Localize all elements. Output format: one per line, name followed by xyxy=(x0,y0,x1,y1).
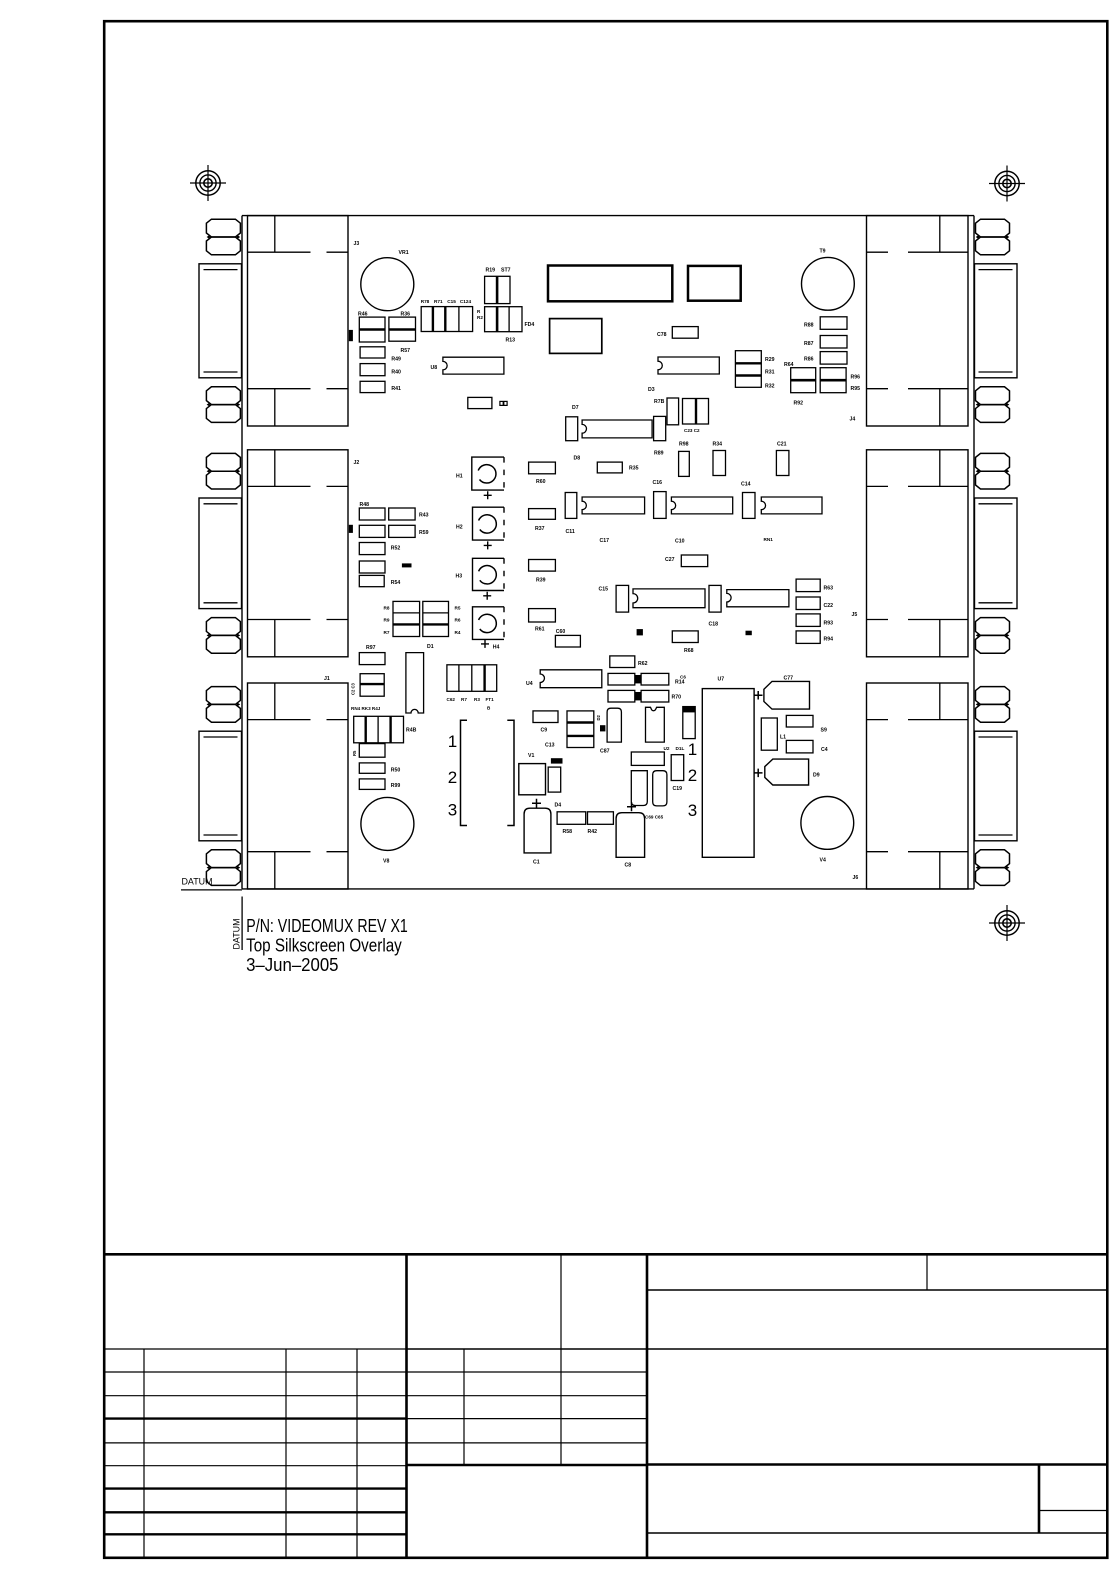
connector J3 (DB9 top-left) xyxy=(199,216,348,426)
svg-text:R94: R94 xyxy=(824,637,834,643)
capacitor C38 xyxy=(616,585,629,612)
svg-text:R41: R41 xyxy=(391,386,401,392)
resistor R54 xyxy=(359,575,384,586)
svg-text:D9: D9 xyxy=(813,773,820,779)
svg-text:V1: V1 xyxy=(528,753,534,759)
resistor R87 xyxy=(820,336,847,349)
svg-text:C2 C3: C2 C3 xyxy=(351,682,356,695)
svg-text:C77: C77 xyxy=(784,676,794,682)
capacitor C9 xyxy=(533,711,558,723)
IC U5 (DIP) xyxy=(582,497,645,514)
inductor L1 xyxy=(761,718,777,750)
resistor R99 xyxy=(359,779,385,790)
svg-text:C16: C16 xyxy=(653,480,663,486)
svg-text:R7B: R7B xyxy=(654,399,665,405)
svg-text:R36: R36 xyxy=(401,312,411,318)
svg-text:R8: R8 xyxy=(384,606,390,611)
capacitor C40 (notched) xyxy=(646,707,665,742)
svg-text:2: 2 xyxy=(448,768,457,787)
svg-text:R39: R39 xyxy=(536,578,546,584)
svg-text:R48: R48 xyxy=(360,502,370,508)
svg-text:D1L: D1L xyxy=(676,746,685,751)
svg-text:R98: R98 xyxy=(679,442,689,448)
resistor array C62/R7/R3/FT1 xyxy=(447,665,497,692)
connector J6 (DB9 bottom-right) xyxy=(867,683,1018,889)
resistor R72 xyxy=(631,752,664,765)
svg-text:R35: R35 xyxy=(629,466,639,472)
trimpot H4 adjust cross xyxy=(481,640,489,648)
svg-text:C15: C15 xyxy=(447,299,456,304)
svg-text:R7: R7 xyxy=(384,630,390,635)
connector J5 (DB9 middle-right) xyxy=(867,450,1018,657)
svg-text:J6: J6 xyxy=(853,875,859,881)
IC U10 (DIP) xyxy=(761,497,822,514)
svg-text:R49: R49 xyxy=(391,357,401,363)
svg-text:R2: R2 xyxy=(477,315,483,320)
resistor pair R36 xyxy=(389,317,416,341)
display module DS1 (bold outline) xyxy=(548,266,672,302)
resistor R61 xyxy=(529,609,556,622)
resistor block R8/R9/R7 xyxy=(393,601,420,636)
svg-text:H4: H4 xyxy=(493,645,500,651)
capacitor C37 xyxy=(654,492,667,519)
svg-text:C69 C65: C69 C65 xyxy=(645,815,664,820)
capacitor C42 xyxy=(548,767,561,792)
voltage regulator U7 xyxy=(702,689,754,858)
svg-text:R70: R70 xyxy=(672,695,682,701)
diode D10 body xyxy=(607,708,621,742)
capacitor D9 (chamfered) xyxy=(765,759,809,785)
svg-text:R7: R7 xyxy=(461,697,467,702)
diode D13 xyxy=(746,631,752,636)
resistor R52 xyxy=(359,543,385,555)
svg-text:R64: R64 xyxy=(784,362,794,368)
resistor R88 xyxy=(820,317,847,330)
resistor R43 xyxy=(389,508,415,520)
trimpot H2 xyxy=(473,507,505,540)
svg-text:D3: D3 xyxy=(648,387,655,393)
svg-text:C22: C22 xyxy=(824,603,834,609)
capacitor V8 (can) xyxy=(361,797,414,850)
diode D6 xyxy=(600,725,605,731)
svg-text:R52: R52 xyxy=(391,546,401,552)
IC U12 (DIP) xyxy=(582,420,652,438)
svg-text:DATUM: DATUM xyxy=(232,919,242,950)
resistor R51 xyxy=(359,525,385,537)
resistor R63 xyxy=(796,579,820,592)
svg-text:3: 3 xyxy=(448,801,457,820)
resistor pair R64/R92 xyxy=(791,368,816,393)
svg-text:C15: C15 xyxy=(599,587,609,593)
pin bracket right xyxy=(507,720,514,825)
capacitor C60 xyxy=(555,635,580,647)
resistor pair R70 xyxy=(608,690,635,702)
capacitor C41 (tantalum) xyxy=(683,707,695,739)
resistor R42 xyxy=(588,812,614,825)
svg-text:C60: C60 xyxy=(556,629,566,635)
svg-text:C19: C19 xyxy=(673,786,683,792)
svg-text:C87: C87 xyxy=(600,749,610,755)
svg-text:1: 1 xyxy=(448,732,457,751)
IC U4 (DIP) xyxy=(540,670,602,688)
trimpot H4 xyxy=(473,607,505,640)
svg-text:RN1: RN1 xyxy=(764,537,774,542)
resistor R68 xyxy=(672,631,698,643)
svg-text:R61: R61 xyxy=(535,627,545,633)
transistor V1 body xyxy=(519,764,546,795)
capacitor C28 xyxy=(654,416,666,440)
pin bracket left xyxy=(461,720,468,825)
IC U11 (DIP) xyxy=(727,590,789,607)
resistor R39 xyxy=(529,560,556,572)
svg-text:C21: C21 xyxy=(777,442,787,448)
capacitor C19 xyxy=(671,755,684,781)
capacitor C4 xyxy=(786,740,813,753)
resistor R60 xyxy=(529,462,556,474)
svg-text:C17: C17 xyxy=(600,538,610,544)
svg-text:D2: D2 xyxy=(596,714,601,720)
svg-text:R5: R5 xyxy=(352,750,357,756)
svg-text:V8: V8 xyxy=(383,859,389,865)
capacitor C25 xyxy=(667,398,679,425)
svg-text:R42: R42 xyxy=(588,829,598,835)
svg-text:R5: R5 xyxy=(455,606,461,611)
svg-text:R31: R31 xyxy=(765,370,775,376)
board outline right edge xyxy=(973,216,975,889)
IC U3 (DIP) xyxy=(658,357,719,374)
svg-text:FD4: FD4 xyxy=(525,322,535,328)
IC U8 (DIP) xyxy=(443,357,504,374)
svg-text:R95: R95 xyxy=(851,386,861,392)
resistor R40 xyxy=(360,364,385,376)
svg-text:C23 C2: C23 C2 xyxy=(684,428,700,433)
svg-text:C14: C14 xyxy=(741,482,751,488)
diode D11 body xyxy=(631,771,647,806)
capacitor C77 (chamfered) xyxy=(764,681,810,709)
resistor array RN2 xyxy=(354,716,404,743)
svg-text:DATUM: DATUM xyxy=(182,877,213,887)
IC U6 (DIP) xyxy=(671,497,732,514)
resistor S9 xyxy=(786,715,813,727)
resistor R59 xyxy=(389,525,415,537)
svg-text:R58: R58 xyxy=(563,829,573,835)
svg-text:U7: U7 xyxy=(718,677,725,683)
resistor stack R29/R31/R32 xyxy=(735,351,761,388)
resistor R93 xyxy=(796,614,820,627)
svg-text:J4: J4 xyxy=(850,417,856,423)
resistor R53 xyxy=(359,561,385,573)
board outline top edge xyxy=(242,215,974,217)
svg-text:R29: R29 xyxy=(765,357,775,363)
svg-text:R32: R32 xyxy=(765,384,775,390)
resistor pair R96/R95 xyxy=(820,368,846,393)
svg-text:RN4 RK3 R4J: RN4 RK3 R4J xyxy=(351,706,381,711)
svg-text:C1: C1 xyxy=(533,860,540,866)
mounting target top-right xyxy=(989,166,1025,202)
capacitor C30 (small pair) xyxy=(500,401,507,405)
resistor block R5/R6/R4 xyxy=(423,601,449,636)
svg-text:U8: U8 xyxy=(431,365,438,371)
capacitor C78 xyxy=(672,327,698,339)
svg-text:U4: U4 xyxy=(526,681,533,687)
svg-text:R92: R92 xyxy=(794,400,804,406)
mounting target bottom-right xyxy=(989,905,1025,941)
svg-text:R54: R54 xyxy=(391,580,401,586)
svg-text:J2: J2 xyxy=(354,460,360,466)
trimpot H3 adjust cross xyxy=(483,592,491,600)
svg-text:C10: C10 xyxy=(675,539,685,545)
svg-text:R46: R46 xyxy=(358,312,368,318)
svg-text:D8: D8 xyxy=(574,456,581,462)
svg-text:FT1: FT1 xyxy=(486,697,495,702)
trimpot H1 adjust cross xyxy=(484,491,492,499)
svg-text:C11: C11 xyxy=(566,529,575,535)
resistor R62 xyxy=(610,656,635,668)
trimpot H2 adjust cross xyxy=(484,541,492,549)
svg-text:ST7: ST7 xyxy=(501,268,511,274)
diode D12 body xyxy=(653,771,667,806)
svg-text:R96: R96 xyxy=(851,374,861,380)
svg-text:R43: R43 xyxy=(419,513,429,519)
capacitor C39 xyxy=(709,585,721,612)
capacitor V4 (can) xyxy=(801,797,854,850)
resistor R94 xyxy=(796,631,820,644)
datum extension line xyxy=(181,889,242,891)
diode D5 xyxy=(637,629,643,635)
svg-text:R78: R78 xyxy=(421,299,430,304)
svg-text:R50: R50 xyxy=(391,768,401,774)
relay K1 outline xyxy=(550,319,602,354)
capacitor C34 xyxy=(743,493,756,519)
resistor pair R46 xyxy=(359,317,385,342)
svg-text:H1: H1 xyxy=(456,474,463,480)
capacitor pair C23/C24 xyxy=(683,399,709,425)
svg-text:R13: R13 xyxy=(506,338,516,344)
svg-text:R71: R71 xyxy=(434,299,443,304)
svg-text:C4: C4 xyxy=(821,747,828,753)
capacitor C33 xyxy=(713,451,726,476)
svg-text:R68: R68 xyxy=(684,648,694,654)
jumper W2 xyxy=(402,563,412,567)
resistor R41 xyxy=(360,381,385,392)
polarity mark on J3 edge xyxy=(349,330,353,341)
svg-text:H3: H3 xyxy=(456,574,463,580)
svg-text:Top Silkscreen Overlay: Top Silkscreen Overlay xyxy=(246,935,402,956)
board outline bottom edge xyxy=(242,888,974,890)
mounting target top-left xyxy=(190,165,226,201)
trimpot H3 xyxy=(473,558,505,590)
svg-text:R89: R89 xyxy=(654,451,664,457)
svg-text:R87: R87 xyxy=(804,341,814,347)
capacitor VR1 (can) xyxy=(361,258,414,311)
svg-text:C18: C18 xyxy=(709,622,719,628)
svg-text:H2: H2 xyxy=(456,525,463,531)
svg-text:V4: V4 xyxy=(820,858,826,864)
capacitor C21 xyxy=(776,451,789,476)
resistor pair R44 xyxy=(360,674,384,697)
svg-text:C13: C13 xyxy=(545,743,555,749)
svg-text:R9: R9 xyxy=(384,618,390,623)
trimpot H1 xyxy=(472,457,504,490)
resistor R48 xyxy=(359,508,385,520)
svg-text:T9: T9 xyxy=(820,249,826,255)
diode D7 body xyxy=(566,417,578,441)
svg-text:L1: L1 xyxy=(780,735,786,741)
resistor R35 xyxy=(597,462,622,473)
resistor array R2/R13/FD4 xyxy=(485,307,522,332)
resistor R49 xyxy=(360,347,385,358)
connector J4 (DB9 top-right) xyxy=(867,216,1018,426)
svg-text:R59: R59 xyxy=(419,530,429,536)
svg-text:D7: D7 xyxy=(572,405,579,411)
svg-text:J3: J3 xyxy=(354,241,360,247)
svg-text:R14: R14 xyxy=(675,680,685,686)
plus mark D9 xyxy=(754,769,763,778)
capacitor C35 xyxy=(679,451,690,476)
capacitor T9 (can) xyxy=(802,257,855,310)
resistor R86 xyxy=(820,352,847,365)
connector J2 (DB9 middle-left) xyxy=(199,450,348,657)
resistor R26 xyxy=(681,555,707,567)
svg-text:R19: R19 xyxy=(486,268,496,274)
svg-text:R62: R62 xyxy=(638,661,648,667)
plus mark C77 xyxy=(754,691,763,700)
plus mark C1 xyxy=(532,799,541,808)
IC U9 (DIP) xyxy=(633,589,705,608)
resistor R58 xyxy=(557,812,586,825)
title block grid xyxy=(104,1254,1107,1558)
svg-text:U2: U2 xyxy=(664,746,670,751)
svg-text:J1: J1 xyxy=(324,676,330,682)
jumper W3 xyxy=(551,758,563,763)
svg-text:R97: R97 xyxy=(366,645,376,651)
connector J1 (DB9 bottom-left) xyxy=(199,683,348,889)
diode D1 body xyxy=(406,653,424,713)
resistor R50 xyxy=(359,763,385,773)
svg-text:1: 1 xyxy=(688,740,697,759)
svg-text:2: 2 xyxy=(688,766,697,785)
svg-text:C8: C8 xyxy=(625,863,632,869)
plus mark C8 xyxy=(627,802,636,811)
svg-text:R4: R4 xyxy=(455,630,461,635)
svg-text:3: 3 xyxy=(688,801,697,820)
resistor R23 xyxy=(468,397,492,408)
svg-text:R40: R40 xyxy=(391,369,401,375)
svg-text:R93: R93 xyxy=(824,621,834,627)
svg-text:D1: D1 xyxy=(427,644,434,650)
resistor pair R14 xyxy=(608,673,635,685)
svg-text:C9: C9 xyxy=(541,728,548,734)
capacitor C36 xyxy=(565,493,577,519)
svg-text:R4B: R4B xyxy=(406,728,417,734)
svg-text:R6: R6 xyxy=(455,618,461,623)
svg-text:3–Jun–2005: 3–Jun–2005 xyxy=(246,954,338,975)
svg-text:C27: C27 xyxy=(665,557,675,563)
capacitor C1 (electrolytic) xyxy=(524,808,551,853)
svg-text:P/N: VIDEOMUX REV X1: P/N: VIDEOMUX REV X1 xyxy=(246,915,407,936)
svg-text:C78: C78 xyxy=(657,332,667,338)
resistor array R78/R71/C15/C124 xyxy=(421,307,472,332)
svg-text:C6: C6 xyxy=(680,675,686,680)
capacitor C22 xyxy=(796,597,820,610)
svg-text:R60: R60 xyxy=(536,479,546,485)
resistor R97 xyxy=(359,653,385,665)
datum leader line xyxy=(241,897,243,951)
svg-text:J5: J5 xyxy=(852,612,858,618)
polarity mark on J2 edge xyxy=(349,525,353,533)
resistor R45 xyxy=(359,744,385,758)
svg-text:D4: D4 xyxy=(555,803,562,809)
svg-text:C62: C62 xyxy=(447,697,456,702)
svg-text:R63: R63 xyxy=(824,586,834,592)
svg-text:S9: S9 xyxy=(821,728,827,734)
svg-text:VR1: VR1 xyxy=(399,250,409,256)
svg-text:C124: C124 xyxy=(460,299,472,304)
resistor R37 xyxy=(529,509,556,520)
svg-text:R99: R99 xyxy=(391,783,401,789)
svg-text:R57: R57 xyxy=(401,348,411,354)
capacitor C8 (electrolytic) xyxy=(616,813,645,858)
svg-text:R88: R88 xyxy=(804,323,814,329)
svg-text:R86: R86 xyxy=(804,357,814,363)
svg-text:R34: R34 xyxy=(713,442,723,448)
svg-text:R3: R3 xyxy=(474,697,480,702)
resistor pair R19/ST7 xyxy=(485,276,510,303)
capacitor block C13 xyxy=(567,711,594,748)
display module DS2 (bold outline) xyxy=(688,266,741,301)
board outline left edge xyxy=(241,216,243,889)
svg-text:R37: R37 xyxy=(535,526,545,532)
